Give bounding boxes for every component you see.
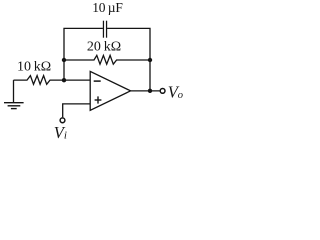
svg-text:10 µF: 10 µF (92, 0, 123, 15)
svg-text:10 kΩ: 10 kΩ (17, 60, 51, 75)
svg-text:20 kΩ: 20 kΩ (87, 40, 121, 55)
